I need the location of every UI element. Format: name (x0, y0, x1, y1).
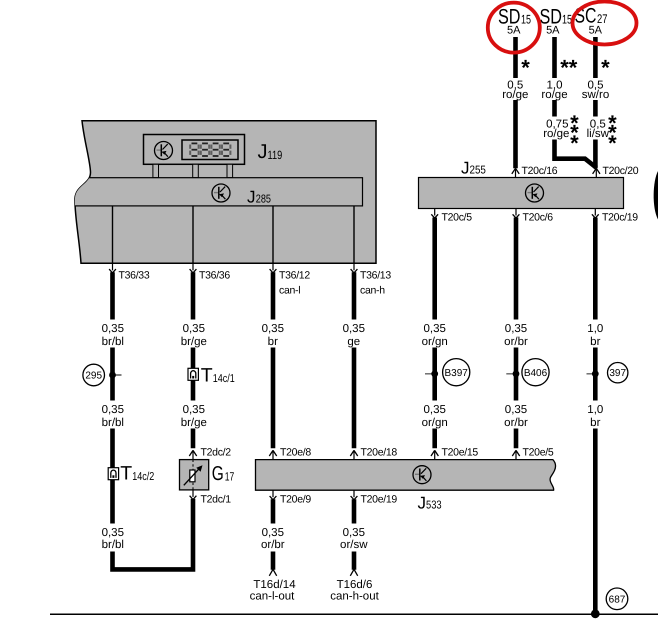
wire label 0,5 ro/ge (500, 78, 531, 101)
svg-text:can-h-out: can-h-out (330, 591, 379, 603)
J255 box (419, 178, 624, 209)
J119 display window (182, 140, 238, 160)
J285 inner box (70, 178, 363, 206)
svg-text:0,35: 0,35 (505, 404, 527, 416)
svg-text:or/gn: or/gn (422, 417, 448, 429)
svg-text:br/bl: br/bl (102, 336, 124, 348)
svg-text:J: J (258, 141, 268, 163)
pin T20c/19 (592, 209, 599, 219)
pin T20e/19 (351, 490, 358, 500)
svg-text:5A: 5A (546, 25, 560, 37)
pin T20e/9 (270, 490, 277, 500)
svg-text:0,35: 0,35 (102, 323, 124, 335)
svg-text:can-h: can-h (360, 285, 385, 297)
svg-text:br/ge: br/ge (181, 417, 207, 429)
pin arrow T20c/16 (512, 168, 519, 177)
svg-text:T20e/5: T20e/5 (523, 446, 554, 458)
pin T20c/5 (431, 209, 438, 219)
svg-text:J: J (461, 159, 470, 178)
pin T2dc/1 out of G17 (190, 490, 197, 500)
wire 1: T36/33 down, across to G17 return (110, 272, 195, 569)
wire label 0,5 li/sw (584, 117, 612, 141)
svg-text:br/bl: br/bl (102, 539, 124, 551)
svg-text:T36/13: T36/13 (360, 269, 391, 281)
svg-text:285: 285 (256, 194, 271, 206)
svg-text:T16d/6: T16d/6 (337, 579, 373, 591)
svg-text:ro/ge: ro/ge (541, 89, 567, 101)
svg-text:T: T (201, 364, 213, 386)
pin T2dc/2 into G17 (189, 450, 196, 459)
svg-text:T20e/15: T20e/15 (442, 446, 479, 458)
wire 4: T36/13 down to T20e/18 (352, 272, 357, 448)
pin T36/36 (190, 263, 197, 273)
svg-text:0,35: 0,35 (262, 323, 284, 335)
connector T14c/2 on wire 1 (108, 462, 154, 484)
wire label 0,35 or/sw (338, 524, 370, 552)
svg-text:T2dc/1: T2dc/1 (201, 493, 232, 505)
svg-text:G: G (212, 463, 224, 485)
svg-text:0,35: 0,35 (424, 404, 446, 416)
wire label 0,35 br/ge (lower) (178, 401, 209, 430)
svg-text:T2dc/2: T2dc/2 (201, 446, 232, 458)
svg-text:ro/ge: ro/ge (502, 89, 528, 101)
pin T36/33 (109, 263, 116, 273)
svg-text:*: * (608, 130, 617, 155)
wire SD15-2 with jog to T20c/20 (552, 37, 596, 168)
wire SD15-1 to T20c/16 (513, 37, 518, 168)
wire label 1,0 br (upper) (581, 320, 610, 349)
pin T20e/18 (350, 450, 357, 459)
outer box with torn left edge (75, 121, 376, 264)
svg-text:or/sw: or/sw (340, 539, 368, 551)
svg-text:br/ge: br/ge (181, 336, 207, 348)
wire label 0,35 br (257, 320, 288, 349)
svg-text:14c/1: 14c/1 (213, 373, 235, 385)
svg-text:J: J (418, 493, 427, 512)
connector T14c/1 on wire 2 (188, 364, 235, 386)
internal stubs from J285 to box edge (113, 206, 355, 263)
svg-text:0,35: 0,35 (343, 323, 365, 335)
wire T20c/5 to T20e/15 (432, 218, 437, 449)
wire T20c/19 to ground line (593, 218, 598, 614)
svg-text:or/br: or/br (261, 539, 285, 551)
wire label 0,35 or/gn (lower) (419, 401, 451, 430)
junction dot wire7/ground (591, 609, 600, 618)
ground point 687 (606, 588, 628, 610)
svg-text:T20c/20: T20c/20 (603, 165, 639, 177)
wire label 1,0 br (lower) (581, 401, 610, 430)
svg-text:br: br (268, 336, 278, 348)
J255 internal symbol (526, 184, 544, 202)
wire T20e/9 down (271, 499, 276, 570)
wire label 0,35 or/br (bottom) (257, 524, 288, 552)
svg-text:li/sw: li/sw (587, 128, 610, 140)
wire label 0,35 or/gn (upper) (419, 320, 451, 349)
wire label 0,35 br/ge (upper) (178, 320, 209, 349)
svg-text:295: 295 (85, 371, 102, 382)
wire label 1,0 ro/ge (539, 78, 570, 101)
pin stubs between J119 and J285 (153, 164, 233, 177)
wire label 0,35 br/bl (lower) (97, 401, 128, 430)
svg-text:0,35: 0,35 (262, 527, 284, 539)
red ellipse around SD15 (488, 3, 540, 53)
sensor G17 (180, 460, 235, 490)
svg-text:T16d/14: T16d/14 (253, 579, 296, 591)
wire T20e/19 down (352, 499, 357, 570)
svg-text:T20c/5: T20c/5 (442, 212, 473, 224)
svg-text:can-l: can-l (279, 285, 300, 297)
junction 397 (587, 363, 628, 383)
svg-text:or/br: or/br (504, 336, 528, 348)
svg-text:255: 255 (470, 165, 486, 177)
svg-text:*: * (521, 55, 530, 80)
svg-text:B397: B397 (445, 368, 469, 379)
svg-text:T20c/19: T20c/19 (602, 212, 638, 224)
svg-text:0,35: 0,35 (102, 404, 124, 416)
svg-text:17: 17 (225, 470, 235, 484)
pin T20e/5 (512, 450, 519, 459)
svg-text:15: 15 (521, 13, 531, 27)
svg-text:ro/ge: ro/ge (543, 128, 569, 140)
svg-text:0,35: 0,35 (183, 404, 205, 416)
off-page continuation arrow at right edge (654, 171, 658, 220)
pin T20e/8 (269, 450, 276, 459)
svg-text:T20e/19: T20e/19 (361, 493, 398, 505)
pin T20c/6 (513, 209, 520, 219)
svg-text:T20c/6: T20c/6 (523, 212, 554, 224)
svg-text:1,0: 1,0 (587, 323, 603, 335)
svg-text:0,35: 0,35 (183, 323, 205, 335)
junction B397 (425, 359, 470, 386)
svg-text:T20e/18: T20e/18 (361, 446, 398, 458)
svg-text:0,35: 0,35 (505, 323, 527, 335)
svg-text:1,0: 1,0 (587, 404, 603, 416)
J119 inner box (144, 135, 245, 165)
svg-text:br: br (590, 336, 600, 348)
svg-text:can-l-out: can-l-out (250, 591, 296, 603)
svg-text:*: * (570, 130, 579, 155)
pin T20e/15 (431, 450, 438, 459)
svg-text:0,35: 0,35 (102, 527, 124, 539)
wire label 0,35 br/bl (bottom) (97, 524, 128, 552)
svg-text:14c/2: 14c/2 (132, 471, 154, 483)
svg-text:687: 687 (609, 594, 626, 605)
svg-text:5A: 5A (589, 25, 603, 37)
pin arrow T20c/20 (593, 168, 600, 177)
svg-text:T36/12: T36/12 (279, 269, 310, 281)
svg-text:0,35: 0,35 (424, 323, 446, 335)
wire label 0,35 br/bl (upper) (97, 320, 128, 349)
junction B406 (506, 359, 549, 386)
seven segment digits 8888 (190, 143, 230, 156)
svg-text:T36/33: T36/33 (119, 269, 150, 281)
svg-text:T20e/8: T20e/8 (280, 446, 311, 458)
svg-text:**: ** (560, 55, 578, 80)
svg-text:or/gn: or/gn (422, 336, 448, 348)
pin T36/13 (351, 263, 358, 273)
svg-text:533: 533 (426, 499, 442, 511)
J533 internal symbol (413, 466, 431, 484)
svg-text:br/bl: br/bl (102, 417, 124, 429)
svg-text:ge: ge (347, 336, 360, 348)
svg-text:T20e/9: T20e/9 (280, 493, 311, 505)
pin T36/12 (270, 263, 277, 273)
svg-text:15: 15 (562, 13, 572, 27)
wire label 0,5 sw/ro (580, 78, 612, 101)
wire T20c/6 to T20e/5 (514, 218, 519, 449)
svg-text:T: T (120, 462, 132, 484)
J119 internal symbol (155, 142, 173, 160)
red ellipse around SC27 (573, 2, 637, 45)
J533 box with torn right edge (256, 460, 556, 491)
svg-text:B406: B406 (524, 368, 548, 379)
ground line (50, 613, 658, 615)
svg-text:T20c/16: T20c/16 (522, 165, 558, 177)
wire label 0,35 or/br (upper) (500, 320, 532, 349)
svg-text:*: * (601, 55, 610, 80)
svg-text:br: br (590, 417, 600, 429)
wire SC27 to T20c/20 (593, 37, 598, 168)
svg-text:J: J (247, 188, 256, 207)
J285 internal symbol (212, 184, 230, 202)
svg-text:or/br: or/br (504, 417, 528, 429)
wire label 0,75 ro/ge (543, 117, 573, 141)
svg-text:T36/36: T36/36 (199, 269, 230, 281)
junction 295 (83, 364, 122, 386)
wire 2: T36/36 down to T2dc/2 (191, 272, 196, 448)
wire label 0,35 or/br (lower) (500, 401, 532, 430)
svg-text:119: 119 (268, 148, 283, 162)
svg-text:sw/ro: sw/ro (582, 89, 609, 101)
svg-text:5A: 5A (507, 25, 521, 37)
svg-text:397: 397 (609, 368, 626, 379)
svg-text:0,35: 0,35 (343, 527, 365, 539)
wire label 0,35 ge (338, 320, 369, 349)
wire 3: T36/12 down to T20e/8 (271, 272, 276, 448)
